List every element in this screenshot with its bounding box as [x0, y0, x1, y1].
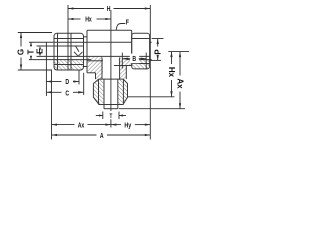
svg-text:C: C	[65, 89, 69, 98]
centerline branch vertical	[110, 10, 112, 128]
nut N3 section hatch	[93, 79, 104, 104]
svg-text:B: B	[132, 54, 136, 63]
svg-text:Ax: Ax	[78, 120, 85, 129]
dim E	[39, 46, 41, 50]
body section hatch right	[119, 58, 132, 66]
svg-text:P: P	[153, 49, 162, 55]
body	[87, 30, 132, 73]
svg-text:T: T	[27, 49, 36, 54]
dim H	[68, 8, 104, 10]
nut N1	[54, 33, 84, 70]
svg-text:F: F	[126, 17, 129, 26]
svg-text:E: E	[36, 48, 45, 54]
bore lines	[37, 45, 84, 47]
branch neck hatch	[96, 73, 103, 79]
dim Hx right	[128, 96, 175, 98]
ferrules left	[83, 37, 85, 67]
extension line x68	[67, 5, 69, 70]
body section hatch left	[87, 56, 103, 72]
extension line x150 right end	[149, 5, 151, 140]
label F leader	[116, 24, 125, 30]
dim D	[45, 60, 47, 96]
svg-text:Hx: Hx	[167, 67, 176, 78]
dim P	[152, 38, 164, 40]
branch port collar	[101, 58, 103, 80]
dim Hx top	[68, 18, 81, 20]
dim A	[52, 134, 97, 136]
nut N2	[132, 33, 150, 69]
dim B	[121, 53, 123, 69]
tube stub right	[150, 41, 152, 43]
centerline ext right	[168, 51, 189, 53]
svg-text:Hx: Hx	[85, 15, 92, 24]
branch neck	[95, 73, 97, 79]
nut N1 section hatch	[54, 60, 84, 70]
tube stub left	[45, 42, 47, 59]
dim Ax bottom	[51, 70, 53, 140]
svg-text:Ax: Ax	[175, 78, 184, 89]
dim T bottom	[102, 112, 104, 120]
tube stub branch	[103, 79, 105, 109]
dim Hy	[111, 124, 121, 126]
svg-text:H: H	[107, 4, 111, 13]
dim G	[18, 32, 52, 34]
dim Ax right	[119, 108, 185, 110]
svg-text:D: D	[65, 77, 69, 86]
svg-text:A: A	[100, 131, 104, 140]
dim T left	[30, 42, 32, 46]
dim C	[83, 73, 85, 95]
svg-text:Hy: Hy	[124, 120, 131, 129]
nut N2 section hatch	[132, 60, 150, 69]
svg-text:G: G	[17, 49, 26, 55]
nut N3 branch	[93, 79, 127, 104]
